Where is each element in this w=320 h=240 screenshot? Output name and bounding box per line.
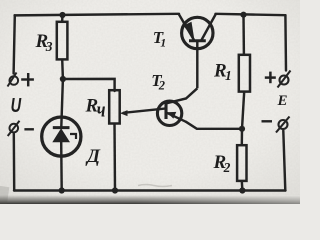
terminal output +: [278, 71, 291, 88]
wire input + lead: [14, 15, 15, 73]
wire top rail right: [216, 14, 286, 15]
scan shadow bottom edge: [0, 195, 300, 204]
arrowhead R4 wiper: [120, 110, 128, 116]
paper background: [0, 0, 300, 204]
resistor R3: [57, 15, 68, 80]
junction top of R1: [240, 12, 246, 18]
svg-text:ч: ч: [97, 97, 106, 122]
junction R2 bottom: [239, 187, 245, 193]
label plus output: [265, 72, 276, 84]
wire input - lead: [13, 134, 16, 191]
svg-text:Д: Д: [85, 146, 101, 167]
wire T1 base to T2 collector: [167, 88, 198, 103]
wire T2 emitter to junction: [186, 122, 242, 129]
svg-text:E: E: [277, 93, 288, 109]
terminal output -: [276, 117, 290, 133]
wire output + lead: [284, 15, 287, 70]
junction R4 bottom: [112, 187, 118, 193]
label minus output: [262, 120, 273, 122]
transistor T1: [179, 14, 217, 89]
resistor R1: [239, 15, 250, 129]
resistor R2: [237, 129, 246, 191]
junction diode bottom: [59, 187, 65, 193]
wire bottom rail: [14, 189, 286, 191]
transistor T2: [157, 101, 186, 126]
junction R3 bottom: [60, 76, 66, 82]
svg-text:2: 2: [158, 78, 165, 92]
junction R1 R2 T2: [239, 126, 245, 132]
scan smudge: [138, 185, 172, 187]
svg-text:U: U: [11, 94, 22, 117]
wire R4 bottom lead: [113, 124, 116, 191]
potentiometer R4: [109, 90, 120, 123]
svg-text:1: 1: [160, 36, 166, 50]
wire output - lead: [283, 131, 285, 191]
wire R3 junction to R4 top: [63, 79, 115, 91]
svg-text:1: 1: [225, 68, 232, 83]
terminal input -: [8, 121, 20, 136]
label plus input: [21, 73, 34, 86]
label minus input: [24, 128, 34, 130]
zener diode D: [42, 117, 81, 156]
junction top of R3: [59, 12, 65, 18]
wire top rail left: [15, 14, 179, 16]
wire R4 wiper to T2 base: [123, 108, 166, 113]
svg-text:2: 2: [223, 160, 231, 175]
wire diode bottom lead: [60, 142, 63, 191]
terminal input +: [8, 73, 19, 87]
wire diode top lead: [61, 79, 63, 127]
svg-text:3: 3: [45, 39, 53, 54]
